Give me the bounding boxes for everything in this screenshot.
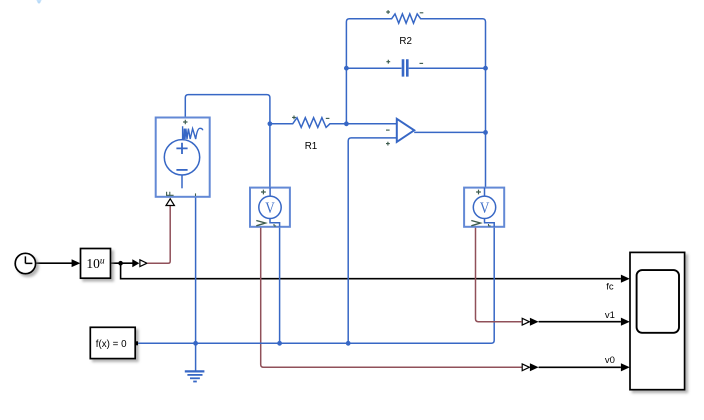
chirp waveform icon [183, 126, 203, 140]
svg-text:V: V [265, 199, 275, 217]
svg-text:R2: R2 [399, 36, 412, 47]
Simulink-PS converter port (open triangle) [140, 260, 147, 267]
node A junction dot [268, 121, 273, 126]
R2 minus mark [420, 12, 424, 14]
svg-text:V: V [480, 199, 490, 217]
node: rail junction op-amp + [346, 341, 351, 346]
PS port triangle (v1) [522, 318, 529, 325]
svg-text:v1: v1 [605, 310, 615, 321]
wire: clock to 10^u [36, 262, 72, 264]
node: cap right junction [483, 66, 488, 71]
node: op-amp output junction [483, 130, 488, 135]
wire: 10^u output to converter [111, 262, 133, 264]
PS output chevron [471, 221, 480, 226]
controlled voltage source block [156, 118, 210, 197]
physical signal line: voltmeter V2 to v1 converter [476, 227, 522, 322]
wire: ground rail from solver block to voltmeter V2 minus [138, 227, 494, 343]
scope block [630, 252, 685, 389]
wire: fc signal from 10^u junction to Scope [121, 263, 621, 279]
PS input port triangle of source [166, 199, 174, 206]
svg-text:fc: fc [606, 281, 614, 292]
wire: v1 signal to scope [539, 321, 621, 323]
svg-text:v0: v0 [605, 355, 615, 366]
wire: source minus down to rail and ground [195, 197, 197, 371]
plus port label [261, 190, 266, 195]
svg-text:f(x) = 0: f(x) = 0 [96, 339, 127, 350]
wire: capacitor branch left [346, 67, 401, 69]
svg-text:R1: R1 [305, 141, 318, 152]
node B junction dot (R1 right / feedback tap) [344, 121, 349, 126]
voltmeter V2 block [464, 188, 504, 227]
PS port triangle (v0) [522, 364, 529, 371]
wire: capacitor branch right [409, 67, 486, 69]
plus port label [476, 190, 481, 195]
block 10^u (math function) [81, 249, 111, 279]
node: junction after 10^u [118, 261, 123, 266]
Simulink-PS converter arrow (filled) [132, 259, 139, 267]
source circle with plus/minus [164, 140, 199, 175]
scope input arrowheads [621, 275, 630, 283]
wire: voltmeter V1 minus down to rail [279, 227, 281, 343]
R1 minus mark [326, 117, 330, 119]
bottom-left port glyph [166, 192, 174, 196]
node: rail junction at ground [193, 341, 198, 346]
R1 plus mark [292, 116, 296, 120]
wire: v0 signal to scope [539, 366, 621, 368]
wire: feedback loop left vertical + top with resistor R2 [346, 14, 485, 196]
plus port label [183, 120, 187, 124]
capacitor minus mark [420, 62, 424, 64]
solver configuration block f(x)=0 [90, 327, 138, 358]
voltmeter V1 block [250, 188, 290, 227]
ground symbol [185, 371, 205, 381]
op-amp plus mark [386, 142, 390, 146]
physical signal line: converter to voltage source ref input [147, 206, 170, 263]
decorative partial icon top-left [37, 0, 42, 4]
wire: source + terminal up and over to node A [185, 95, 270, 124]
clock block [15, 253, 35, 273]
node: rail junction V1 minus [277, 341, 282, 346]
PS output chevron [256, 221, 265, 226]
wire + resistor R1 zigzag [270, 118, 397, 128]
wire: op-amp noninverting input from ground rail [348, 138, 397, 343]
physical signal line: voltmeter V1 to v0 converter [261, 227, 522, 367]
R2 plus mark [386, 10, 390, 14]
node: cap left junction [344, 66, 349, 71]
minus port tick [489, 224, 491, 226]
bottom-right port tick [195, 193, 197, 196]
capacitor C1 plates [403, 59, 407, 76]
scope screen [637, 270, 679, 333]
minus port tick [274, 224, 276, 226]
capacitor plus mark [386, 60, 390, 64]
wire: op-amp output to right vertical [414, 131, 485, 133]
op-amp minus mark [386, 129, 390, 131]
PS-Simulink converter arrow (v1) [530, 318, 539, 326]
PS-Simulink converter arrow (v0) [530, 363, 539, 371]
op-amp U1 triangle [397, 119, 414, 142]
wire: node A down to voltmeter V1 [269, 124, 271, 196]
